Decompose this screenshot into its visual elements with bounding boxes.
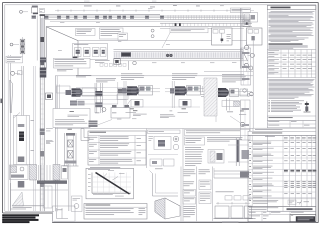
schedule row numbers — [249, 141, 251, 144]
group3 dark anchor cluster — [218, 88, 226, 97]
group2 dim line left — [117, 82, 119, 104]
group3 top border — [204, 71, 253, 73]
bl horizontal tie — [11, 189, 69, 191]
central panel hatch detail — [208, 150, 224, 164]
detail box B — [247, 28, 263, 45]
bottom centre col divider 3 — [212, 167, 214, 222]
group2 centre verticals — [123, 81, 125, 108]
stack joint detail upper — [214, 170, 250, 172]
left bracket mid — [46, 93, 53, 100]
schedule first column text — [253, 141, 271, 144]
hanger rod — [128, 61, 130, 70]
elevation tiny marks — [31, 119, 34, 122]
elevation mid fittings — [18, 124, 25, 127]
group3a dark blob — [175, 86, 185, 95]
bl tall box below — [44, 186, 53, 208]
group1 labels — [76, 74, 91, 77]
group3 gray components — [230, 89, 239, 97]
group1 leader lines — [76, 92, 130, 94]
label box above band right — [231, 8, 251, 13]
detail box A — [212, 28, 233, 45]
drawn-by cell — [249, 215, 260, 218]
group1 centre mullion strip — [94, 83, 96, 113]
group2 lower bracket — [131, 100, 143, 108]
left scribble block — [89, 121, 98, 128]
notes heading bar — [267, 6, 316, 10]
fixing stack callout circle — [10, 43, 13, 46]
group3a centre verticals — [171, 81, 173, 108]
group3 callout circle — [250, 92, 254, 96]
schedule bottom formula cell — [248, 198, 316, 200]
iso bracket view — [155, 198, 180, 219]
left callout circle mid — [11, 71, 15, 75]
bottom centre col divider 2 — [196, 167, 198, 222]
group3 section label — [227, 111, 233, 114]
mid panel bolt circles — [173, 136, 179, 142]
label box 3 — [118, 33, 128, 40]
left inner vertical pair — [33, 66, 35, 211]
bl left angle wedge — [10, 183, 12, 211]
schedule bold row — [284, 170, 288, 171]
perspective ceiling line — [46, 26, 160, 28]
note bar — [267, 116, 316, 121]
title block top row — [248, 210, 316, 212]
section label A-A mid — [170, 110, 173, 113]
legend squares row — [100, 63, 103, 66]
group2 profile boxes — [139, 86, 153, 96]
callout circles right of strip — [250, 53, 254, 57]
mullion vertical section — [36, 16, 38, 61]
callout circle below strip — [133, 61, 137, 65]
mullion lower fittings — [40, 129, 45, 136]
group2 leaders — [117, 88, 160, 90]
panel assembly detail box — [73, 44, 108, 60]
perspective wall verticals — [45, 27, 47, 69]
group3 concrete hatch — [204, 78, 217, 116]
graph diagonal thick — [96, 173, 130, 195]
three-unit heading — [216, 191, 234, 194]
group1 section marks — [95, 112, 99, 115]
right gutter tall detail upper — [241, 48, 251, 85]
group1 extra leaders — [76, 87, 128, 89]
title rows — [248, 214, 290, 216]
group3 bracket — [222, 101, 239, 107]
bl dark sill band — [37, 181, 67, 184]
schedule numeric block 2 — [284, 181, 287, 184]
small two row table — [267, 121, 316, 128]
notes paragraph 2 — [269, 78, 315, 81]
group3 callout circle top — [244, 63, 248, 67]
left elevation strip — [14, 116, 30, 165]
notes paragraph 1 — [271, 10, 315, 13]
scattered dimension text marks — [60, 21, 64, 24]
group3a dim ticks — [200, 86, 208, 92]
bl right vertical pair — [68, 164, 70, 211]
graph axis labels — [88, 174, 91, 177]
group2 label text — [121, 73, 142, 76]
second long band (sill) — [160, 22, 252, 24]
graph leader labels — [108, 169, 114, 172]
leader to note strip — [162, 33, 170, 48]
group3 drop rods — [226, 99, 228, 111]
three small boxes — [225, 196, 232, 200]
bl small box with circle — [72, 196, 83, 212]
note box bottom centre — [84, 204, 147, 220]
fixing stack (three anchors) — [20, 39, 25, 43]
band right end detail — [243, 19, 250, 27]
bl caption text — [13, 205, 45, 208]
group3a profile boxes — [187, 86, 201, 96]
right gutter circles — [243, 89, 247, 93]
A-B note box left — [53, 109, 90, 128]
black revision text block — [2, 214, 39, 216]
strip end diagonal — [243, 52, 248, 61]
wind load table — [267, 50, 316, 78]
leader with circle — [215, 108, 217, 122]
bl hatch column 3 — [53, 165, 60, 181]
central glazing panel border — [182, 129, 184, 222]
drawing number block — [290, 215, 316, 222]
left rail lines — [7, 55, 9, 211]
top margin ticks — [84, 0, 90, 2]
left wedge profile — [9, 80, 11, 113]
mid panel bottom boxes — [150, 159, 162, 166]
unitised transom plan strip — [114, 49, 244, 51]
group3 leaders — [217, 91, 252, 93]
left margin tick — [0, 99, 2, 104]
head detail block — [32, 8, 38, 14]
callout circle below bolt detail — [244, 45, 248, 49]
schedule columns — [251, 135, 253, 206]
graph box — [86, 168, 134, 199]
group1 right components — [118, 89, 124, 94]
bl corner box — [53, 206, 76, 221]
second horizontal separator — [55, 128, 253, 130]
label box 1 — [76, 29, 96, 36]
diamond fixings — [175, 23, 177, 26]
central panel header — [185, 130, 250, 136]
bl mid verticals — [38, 165, 40, 180]
tiny text left margin — [46, 140, 53, 143]
anchor figure — [306, 102, 308, 113]
label box 2 — [100, 28, 124, 39]
caption under panel box — [95, 59, 110, 62]
drawing area right border — [252, 41, 254, 129]
spec table caption — [90, 166, 120, 169]
bl components right — [62, 166, 68, 180]
mid panel borders — [146, 129, 148, 169]
schedule rows — [248, 146, 316, 148]
outer vertical pair right of mullion — [55, 76, 57, 211]
formula boxes col — [199, 169, 210, 172]
central panel right detail — [235, 138, 237, 166]
caption under units — [222, 221, 239, 224]
top dimension line — [55, 10, 254, 12]
mullion upper fittings — [40, 58, 46, 63]
group3 label text — [222, 73, 244, 76]
notes column box — [267, 6, 316, 212]
small outline box above table — [111, 108, 130, 119]
table heading bar — [253, 128, 316, 131]
section marker circles left of strip — [151, 29, 154, 32]
head detail callout circle — [20, 10, 23, 13]
central panel sub boxes — [185, 137, 205, 145]
strip fixing pair — [166, 54, 169, 57]
bottom centre col divider 1 — [180, 167, 182, 222]
group2 section label — [130, 108, 134, 111]
group1 jamb detail left — [56, 85, 58, 114]
spec table box — [88, 131, 146, 165]
left note box — [6, 56, 23, 63]
section label A-A right — [240, 110, 244, 113]
mid horizontal separator — [55, 75, 253, 77]
corner detail top — [155, 168, 163, 171]
title block outer — [248, 207, 316, 222]
elevation strip upper pair — [21, 66, 23, 116]
schedule table outer — [248, 135, 316, 206]
bottom centre text col — [184, 169, 195, 172]
A-A section label — [133, 109, 137, 112]
mid panel components — [154, 137, 171, 150]
group3a leaders — [165, 88, 208, 90]
bl hatch column 2 — [30, 165, 37, 181]
schedule header row — [248, 140, 316, 142]
company name bar — [287, 208, 313, 210]
numbered list — [269, 100, 270, 103]
elevation lock block (black) — [19, 132, 24, 142]
bl top-left box — [10, 165, 29, 180]
callout circle left of box — [102, 108, 106, 112]
right end vertical pair — [239, 8, 241, 69]
mullion top cap — [40, 14, 45, 16]
units dim line — [216, 202, 250, 204]
group3a section label — [182, 108, 186, 111]
mid panel header — [148, 130, 181, 134]
strip dark blob left — [121, 52, 131, 56]
long note label strip — [170, 28, 208, 33]
three unit rectangles — [215, 206, 229, 218]
central panel list labels — [185, 146, 201, 149]
bracket below strip — [114, 59, 121, 65]
elevation strip top cut — [14, 113, 21, 119]
perspective corner diagonal — [46, 27, 78, 41]
schedule numeric entries — [284, 141, 287, 144]
notes subheading — [269, 43, 303, 44]
mid panel dim marks — [148, 154, 178, 156]
top right small detail — [243, 13, 258, 23]
long horizontal head section band — [45, 13, 160, 15]
schedule numeric row 3 — [284, 192, 287, 195]
group2 dark blob — [127, 86, 137, 95]
S-B section detail — [68, 128, 72, 131]
group3a lower bracket — [179, 100, 191, 108]
right gutter tall detail lower — [241, 100, 251, 140]
L profile right — [81, 129, 89, 141]
note text box group1 — [54, 58, 91, 68]
group3a label text — [172, 73, 197, 76]
